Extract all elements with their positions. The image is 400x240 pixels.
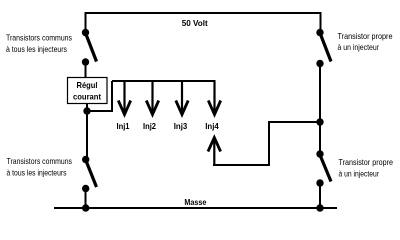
wire: left rail from top bus down to Q1 <box>85 12 87 32</box>
svg-text:courant: courant <box>73 91 101 101</box>
svg-text:Inj3: Inj3 <box>174 121 188 131</box>
wire: right rail from top bus down to Q3 <box>320 12 322 32</box>
svg-text:50 Volt: 50 Volt <box>182 18 208 28</box>
svg-text:Transistor propre: Transistor propre <box>338 31 393 41</box>
return arrow (up) from Inj4 <box>208 138 221 166</box>
svg-text:Transistors communs: Transistors communs <box>7 156 73 166</box>
injector arrow Inj4 <box>208 81 220 115</box>
injector arrow Inj3 <box>176 81 188 115</box>
current regulator U1: Régul courant box <box>68 78 108 104</box>
svg-text:Inj1: Inj1 <box>117 121 130 131</box>
svg-text:Régul: Régul <box>77 80 98 90</box>
svg-text:Masse: Masse <box>184 197 206 207</box>
wire: node A to injector bus riser <box>87 110 113 112</box>
wire: Q3 down to node B <box>319 64 321 123</box>
node B: junction of return path and right rail <box>316 118 323 125</box>
svg-text:Inj2: Inj2 <box>143 121 156 131</box>
label: Transistors communs / à tous les injecteurs (top-left) <box>6 33 72 54</box>
wire: Q2 down to ground bus <box>85 189 87 209</box>
injector arrow Inj1 <box>118 81 130 115</box>
svg-text:à un injecteur: à un injecteur <box>338 42 380 52</box>
label: Transistor propre / à un injecteur (top-right) <box>338 31 393 52</box>
wire: Q4 down to ground bus <box>319 183 321 208</box>
wire: 50 Volt top bus <box>86 12 321 14</box>
wire: regulator output down to node A and bottom transistor Q2 <box>86 104 88 160</box>
wire: return path step to right rail <box>213 122 320 165</box>
transistor Q4 (bottom-right, per-injector) <box>316 150 331 186</box>
label: Transistors communs / à tous les injecteurs (bottom-left) <box>7 156 73 178</box>
svg-text:Transistor propre: Transistor propre <box>339 157 394 167</box>
svg-text:Transistors communs: Transistors communs <box>6 33 72 43</box>
svg-text:à tous les injecteurs: à tous les injecteurs <box>6 44 67 54</box>
wire: injector distribution bus <box>112 80 216 82</box>
label: Transistor propre / à un injecteur (bottom-right) <box>339 157 394 178</box>
svg-text:à tous les injecteurs: à tous les injecteurs <box>7 167 67 177</box>
wire: riser up to injector bus <box>111 81 113 111</box>
transistor Q2 (bottom-left, common to all injectors) <box>82 156 97 192</box>
svg-text:Inj4: Inj4 <box>205 121 219 131</box>
ground bus: Masse <box>54 207 337 209</box>
wire: Q1 emitter to current regulator box <box>85 62 87 78</box>
node A: junction below regulator <box>83 107 90 114</box>
wire: node B down to Q4 <box>319 122 321 154</box>
transistor Q1 (top-left, common to all injectors) <box>82 29 97 66</box>
node: ground junction right <box>316 204 323 211</box>
node: ground junction left <box>82 204 89 211</box>
injector arrow Inj2 <box>146 81 158 115</box>
svg-text:à un injecteur: à un injecteur <box>339 169 380 179</box>
transistor Q3 (top-right, per-injector) <box>316 29 331 67</box>
